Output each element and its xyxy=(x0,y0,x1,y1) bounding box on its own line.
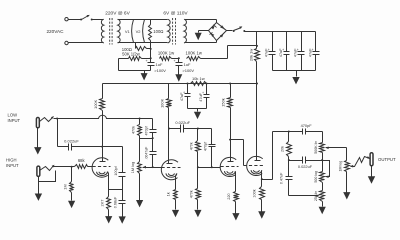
svg-text:100K: 100K xyxy=(160,98,165,107)
wire B+ top rail xyxy=(245,31,316,33)
wire volume bottom xyxy=(139,174,141,200)
wire low branch down xyxy=(58,119,69,147)
svg-text:0.47uF: 0.47uF xyxy=(280,172,284,184)
ground volume xyxy=(136,200,143,208)
label 100K 1w first xyxy=(158,51,175,56)
svg-text:50K 1/2w: 50K 1/2w xyxy=(122,52,140,57)
svg-text:100k: 100k xyxy=(252,189,256,197)
wire bridge right xyxy=(227,30,233,32)
svg-text:INPUT: INPUT xyxy=(6,163,19,168)
ground 0.68uF xyxy=(119,204,126,224)
svg-text:470pf: 470pf xyxy=(204,141,208,151)
svg-text:+: + xyxy=(145,59,147,63)
triode V1b envelope xyxy=(161,160,178,180)
svg-text:+: + xyxy=(202,91,204,95)
wire to V1a grid xyxy=(88,166,93,168)
svg-text:>100V: >100V xyxy=(154,68,166,73)
capacitor 470pf coupling xyxy=(144,119,156,139)
triode V2a cathode xyxy=(225,171,236,191)
ground 1M xyxy=(68,193,75,209)
resistor 100k cathode load xyxy=(252,180,264,200)
wire chain left box xyxy=(119,59,151,71)
resistor 220R cathode xyxy=(227,192,239,202)
capacitor 47uF bank1 xyxy=(265,32,276,71)
triode V1a plate xyxy=(100,158,106,162)
triode V1a envelope xyxy=(92,158,108,177)
ground 220R xyxy=(232,202,239,221)
triode V1b plate xyxy=(167,160,173,164)
svg-text:20k: 20k xyxy=(281,146,285,152)
triode V2b envelope xyxy=(247,156,263,175)
ground 1uF second xyxy=(175,66,182,82)
label OUTPUT xyxy=(378,157,396,162)
svg-text:100Ω: 100Ω xyxy=(153,29,163,34)
svg-text:1M: 1M xyxy=(63,184,68,189)
svg-text:0.68uF: 0.68uF xyxy=(113,196,117,208)
svg-text:OUTPUT: OUTPUT xyxy=(378,157,396,162)
terminal 220VAC neutral xyxy=(65,41,104,44)
terminal 220VAC line xyxy=(65,18,81,21)
transformer T2 core xyxy=(173,18,176,45)
capacitor 0.022uF tone xyxy=(289,157,323,170)
capacitor 470pF tone xyxy=(301,123,323,135)
svg-text:68k: 68k xyxy=(78,158,86,163)
svg-text:100K: 100K xyxy=(93,99,98,108)
transformer T2 label xyxy=(163,10,188,16)
resistor 10k 1w xyxy=(191,76,207,86)
wire low input line xyxy=(54,115,153,119)
pot 500 log wiper xyxy=(323,161,330,179)
transformer T2 primary xyxy=(168,19,170,43)
triode V1b cathode xyxy=(166,173,177,189)
jack J3 OUTPUT xyxy=(370,153,373,166)
capacitor 100pf xyxy=(114,147,126,190)
triode V2a plate xyxy=(228,158,234,162)
resistor 470k upper xyxy=(190,129,201,168)
wire V1a plate xyxy=(102,111,104,158)
svg-text:100K 1w: 100K 1w xyxy=(158,51,175,56)
resistor 100R heater xyxy=(149,20,164,43)
wire supply rail xyxy=(103,83,259,85)
svg-text:470k: 470k xyxy=(132,126,136,134)
capacitor 47uF decouple1 xyxy=(180,83,191,109)
ground bridge xyxy=(195,31,202,41)
pot 1M log wiper xyxy=(350,165,353,168)
ground J2 xyxy=(35,177,42,201)
capacitor 47uF decouple2 xyxy=(199,83,210,109)
switch S2 standby xyxy=(233,25,246,32)
jack J1 LOW xyxy=(36,118,39,128)
potentiometer 500 log xyxy=(314,161,324,183)
potentiometer 25k lin xyxy=(314,183,324,202)
svg-text:+: + xyxy=(297,48,299,52)
svg-text:1M log: 1M log xyxy=(131,162,135,173)
svg-text:470pF: 470pF xyxy=(301,123,313,128)
svg-text:470k: 470k xyxy=(190,142,194,150)
capacitor 1uF second xyxy=(174,59,195,74)
svg-text:220: 220 xyxy=(227,193,231,199)
jack J3 tip contact xyxy=(351,156,371,166)
wire 1M log bottom xyxy=(346,172,348,190)
svg-text:2K7: 2K7 xyxy=(100,200,105,207)
ground 25k xyxy=(319,202,326,215)
wire heater bottom rail xyxy=(118,42,168,44)
resistor 100K 1w second xyxy=(187,57,228,61)
wire tone top line xyxy=(273,131,303,133)
triode V1a grid xyxy=(93,166,111,168)
resistor 150k plate V2a xyxy=(221,83,233,108)
resistor 68k grid stopper xyxy=(75,158,88,169)
svg-text:+: + xyxy=(174,59,176,63)
wire T2 to bridge top xyxy=(185,20,217,23)
capacitor 0.022uF interstage xyxy=(169,120,212,133)
svg-text:20k 1w: 20k 1w xyxy=(248,49,253,62)
resistor 100K plate V1b xyxy=(160,84,172,108)
transformer T1 label xyxy=(105,10,130,16)
wire heater top rail xyxy=(118,19,168,21)
resistor 1k cathode xyxy=(166,190,178,200)
node B+ tap xyxy=(256,45,258,47)
jack J2 HIGH xyxy=(37,166,40,176)
svg-text:+: + xyxy=(183,90,185,94)
capacitor 470pf shunt xyxy=(204,129,216,168)
svg-text:470k: 470k xyxy=(189,190,193,198)
wire chain to B+ xyxy=(228,46,257,59)
svg-text:0.022uF: 0.022uF xyxy=(175,120,190,125)
wire cathode follower out xyxy=(261,178,273,180)
svg-text:220V @ 6V: 220V @ 6V xyxy=(105,10,130,16)
wire heater tap xyxy=(150,43,152,59)
capacitor 0.47uF tone xyxy=(280,159,293,196)
ground cap bank xyxy=(292,71,299,85)
triode V1b grid xyxy=(162,167,181,169)
svg-text:10k 1w: 10k 1w xyxy=(192,76,205,81)
svg-text:>100V: >100V xyxy=(182,68,194,73)
triode V2b grid xyxy=(244,165,265,167)
svg-text:INPUT: INPUT xyxy=(8,118,21,123)
svg-text:V1: V1 xyxy=(125,29,131,34)
wire V2a plate xyxy=(230,108,232,158)
resistor 50K xyxy=(119,57,151,61)
wire V1a cathode bus xyxy=(109,189,123,191)
switch S1 mains xyxy=(80,14,103,21)
capacitor 47uF bank2 xyxy=(279,32,290,71)
resistor 100K plate V1a xyxy=(93,84,105,111)
ground J3 xyxy=(368,166,375,184)
node filter2 xyxy=(178,57,180,59)
svg-text:1uF: 1uF xyxy=(184,62,191,67)
svg-text:470pf: 470pf xyxy=(144,125,148,135)
label HIGH INPUT xyxy=(6,158,19,168)
wire V2a grid line xyxy=(197,166,221,168)
svg-text:500 log: 500 log xyxy=(314,171,318,183)
bridge rectifier D1-D4 xyxy=(209,23,227,41)
triode V2b plate xyxy=(255,84,261,161)
ground 2K7 xyxy=(105,210,112,224)
resistor 1M grid leak xyxy=(63,167,74,193)
wire coupling join xyxy=(140,137,154,139)
svg-text:500K lin: 500K lin xyxy=(314,141,318,154)
ground 1k xyxy=(172,200,179,218)
resistor 2K7 cathode xyxy=(100,190,111,210)
potentiometer 500K lin xyxy=(314,132,325,162)
wire V2a plate tap xyxy=(229,139,243,166)
triode V2b cathode xyxy=(251,170,262,179)
svg-text:.0047uF: .0047uF xyxy=(144,147,148,160)
triode V1a cathode xyxy=(97,172,109,190)
triode V2a envelope xyxy=(220,157,236,176)
heater V2 xyxy=(136,20,145,43)
svg-text:+: + xyxy=(282,48,284,52)
capacitor 47uF bank4 xyxy=(308,32,319,71)
ground 100k xyxy=(258,200,265,219)
label 50K xyxy=(122,52,140,57)
label 100K 1w second xyxy=(186,51,203,56)
svg-text:150k: 150k xyxy=(221,98,226,106)
capacitor 0.022uF input xyxy=(64,138,79,150)
wire CF riser xyxy=(272,132,274,180)
wire to V1a plate node xyxy=(72,146,123,148)
resistor 100R series xyxy=(136,43,151,51)
svg-text:1M log: 1M log xyxy=(338,161,342,172)
svg-text:V2: V2 xyxy=(136,29,142,34)
svg-text:220VAC: 220VAC xyxy=(46,29,64,34)
jack J2 tip contact xyxy=(40,164,56,171)
transformer T2 secondary xyxy=(184,19,186,43)
wire bridge left xyxy=(199,30,209,32)
svg-text:0.022uF: 0.022uF xyxy=(64,138,79,143)
label 220VAC xyxy=(46,29,64,34)
pot 500K wiper xyxy=(325,146,346,149)
resistor 100K 1w first xyxy=(160,57,179,61)
wire high input line xyxy=(54,166,75,168)
wire cap bank bottom xyxy=(273,70,316,72)
svg-text:0.022uF: 0.022uF xyxy=(298,164,313,169)
transformer T1 secondary xyxy=(118,19,120,43)
ground J1 xyxy=(34,128,41,155)
wire decouple bottom xyxy=(188,108,207,110)
wire V1b plate xyxy=(168,108,170,164)
jack J1 tip contact xyxy=(40,115,55,121)
ground 1M log xyxy=(343,190,350,200)
capacitor 47uF bank3 xyxy=(294,32,305,71)
resistor 470k lower xyxy=(189,168,200,200)
heater V1 xyxy=(125,20,134,43)
capacitor 0.68uF cathode xyxy=(113,190,125,209)
node filter1 xyxy=(150,57,152,59)
svg-text:1k: 1k xyxy=(166,192,171,196)
triode V2a grid xyxy=(221,166,239,168)
capacitor 0.0047uF xyxy=(144,139,156,167)
transformer T1 primary xyxy=(101,19,103,43)
resistor 20k tone xyxy=(281,131,292,161)
svg-text:100pf: 100pf xyxy=(114,165,118,175)
svg-text:6V @ 110V: 6V @ 110V xyxy=(163,10,188,16)
jack J2 shunt contact xyxy=(39,171,56,182)
capacitor 1uF first xyxy=(145,59,166,74)
potentiometer 1M log output xyxy=(338,148,349,172)
label 100R series xyxy=(122,47,132,52)
svg-text:25k lin: 25k lin xyxy=(314,191,318,201)
pot volume wiper xyxy=(143,166,162,169)
potentiometer 1M log volume xyxy=(131,139,141,174)
label LOW INPUT xyxy=(8,113,21,123)
wire to 25k wiper xyxy=(289,194,320,197)
svg-text:100K 1w: 100K 1w xyxy=(186,51,203,56)
svg-text:+: + xyxy=(268,48,270,52)
svg-text:1uF: 1uF xyxy=(156,62,163,67)
svg-text:+: + xyxy=(312,48,314,52)
wire T2 to bridge bottom xyxy=(185,41,217,43)
ground decouple xyxy=(194,109,201,120)
resistor 470k coupling xyxy=(132,119,142,139)
transformer T1 core xyxy=(110,18,112,45)
resistor 20k 1w xyxy=(248,32,259,84)
ground 470k lower xyxy=(194,200,201,218)
ground chain xyxy=(141,71,148,81)
